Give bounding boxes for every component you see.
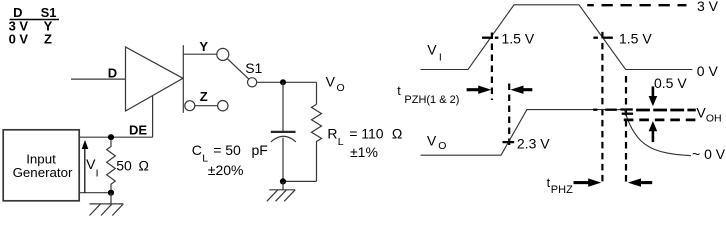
- label CL value: [192, 142, 268, 178]
- dashed VOH level: [636, 109, 696, 112]
- svg-text:OH: OH: [706, 112, 722, 124]
- output bar: [182, 45, 184, 113]
- tick VOH at disable crossing: [593, 109, 617, 111]
- capacitor CL bottom plate arc: [271, 136, 296, 142]
- wire generator bottom: [79, 192, 111, 194]
- svg-text:R: R: [327, 126, 337, 142]
- svg-text:50: 50: [116, 157, 132, 173]
- node junction bottom: [108, 190, 114, 196]
- resistor RL: [312, 104, 322, 181]
- svg-text:Ω: Ω: [138, 157, 149, 173]
- wire RL branch top: [316, 82, 318, 104]
- svg-text:3 V: 3 V: [697, 0, 719, 14]
- tick VOH upper: [620, 108, 632, 110]
- label VO: [326, 73, 345, 94]
- svg-text:±1%: ±1%: [350, 144, 378, 160]
- arrow tPHZ right: [628, 178, 652, 186]
- svg-text:V: V: [696, 104, 706, 120]
- svg-text:V: V: [86, 156, 96, 172]
- ground right: [267, 181, 295, 201]
- wire Z stub: [195, 105, 218, 107]
- svg-text:V: V: [427, 132, 437, 148]
- label tPHZ: [547, 176, 573, 196]
- arrow VI: [82, 140, 89, 193]
- svg-text:V: V: [326, 73, 336, 89]
- svg-text:D: D: [108, 65, 117, 80]
- ground left: [90, 193, 124, 216]
- resistor 50ohm: [107, 140, 116, 189]
- op-amp U1 driver triangle: [126, 47, 184, 111]
- capacitor CL top plate: [271, 131, 296, 133]
- svg-text:Y: Y: [199, 39, 208, 54]
- svg-text:2.3 V: 2.3 V: [517, 136, 550, 152]
- label VI: [86, 156, 98, 180]
- terminal Z circle small: [185, 101, 195, 111]
- svg-text:V: V: [427, 41, 437, 57]
- input generator box: [3, 130, 79, 201]
- svg-text:Input: Input: [26, 151, 56, 166]
- node ground junction: [280, 178, 286, 184]
- svg-text:I: I: [439, 52, 442, 64]
- svg-text:= 50: = 50: [213, 142, 241, 158]
- svg-text:t: t: [397, 84, 401, 98]
- arrow tPZH right: [510, 86, 532, 94]
- terminal Z circle right: [218, 101, 228, 111]
- svg-text:Generator: Generator: [13, 165, 73, 180]
- wire DE vertical: [152, 96, 154, 138]
- label RL value: [327, 126, 402, 160]
- svg-text:0 V: 0 V: [9, 32, 29, 47]
- arrow tPZH left: [467, 86, 492, 94]
- node VO junction: [280, 79, 286, 85]
- tick VOH lower: [622, 113, 633, 115]
- switch S1 blade: [227, 59, 249, 80]
- dashed VOH minus 0.5 level: [624, 119, 697, 122]
- wire Y stub: [183, 53, 216, 55]
- table underline: [10, 19, 59, 21]
- dashed line rising crossing: [491, 33, 493, 101]
- tick 1.5V rising: [482, 37, 498, 39]
- dashed line VO rise: [508, 84, 510, 146]
- waveform VO trace: [421, 110, 625, 156]
- label VI wave: [427, 41, 442, 63]
- tick 2.3V: [503, 141, 515, 143]
- dashed line VO fall: [625, 76, 627, 186]
- svg-text:0 V: 0 V: [697, 63, 719, 79]
- terminal Y circle: [217, 48, 229, 60]
- wire D input: [71, 78, 126, 80]
- svg-text:0.5 V: 0.5 V: [654, 75, 687, 91]
- wire generator to DE: [79, 136, 152, 138]
- wire RL bottom to node: [283, 180, 317, 182]
- node junction top: [108, 134, 114, 140]
- waveform VO decay curve: [625, 110, 691, 156]
- switch S1 pole circle: [248, 78, 257, 87]
- svg-text:O: O: [438, 140, 446, 152]
- svg-text:Z: Z: [44, 32, 52, 47]
- svg-text:Z: Z: [200, 89, 208, 104]
- arrow 0.5V up: [649, 121, 658, 142]
- arrow tPHZ left: [574, 178, 602, 186]
- svg-text:C: C: [192, 142, 202, 158]
- svg-text:PHZ: PHZ: [551, 184, 573, 196]
- svg-text:pF: pF: [252, 142, 268, 158]
- dashed 3V level: [587, 4, 686, 6]
- svg-text:~ 0 V: ~ 0 V: [692, 146, 726, 162]
- label VOH: [696, 104, 721, 124]
- wire cap branch top: [282, 82, 284, 131]
- svg-text:PZH(1 & 2): PZH(1 & 2): [404, 94, 459, 106]
- arrow 0.5V down: [649, 86, 658, 106]
- svg-text:1.5 V: 1.5 V: [502, 30, 535, 46]
- dashed line falling crossing: [601, 32, 603, 186]
- svg-text:DE: DE: [129, 122, 147, 137]
- svg-text:Ω: Ω: [392, 126, 403, 142]
- tick 1.5V falling: [593, 37, 613, 39]
- svg-text:±20%: ±20%: [208, 162, 244, 178]
- svg-text:I: I: [96, 167, 99, 179]
- svg-text:O: O: [337, 82, 345, 94]
- wire cap branch bottom: [282, 138, 284, 182]
- input generator text: [13, 151, 73, 180]
- wire pole to VO node: [257, 81, 317, 83]
- label tPZH: [397, 84, 459, 106]
- svg-text:L: L: [338, 136, 344, 148]
- svg-text:S1: S1: [245, 60, 262, 76]
- svg-text:= 110: = 110: [349, 126, 384, 142]
- waveform VI trace: [421, 5, 693, 70]
- svg-text:1.5 V: 1.5 V: [619, 30, 652, 46]
- label VO wave: [427, 132, 447, 151]
